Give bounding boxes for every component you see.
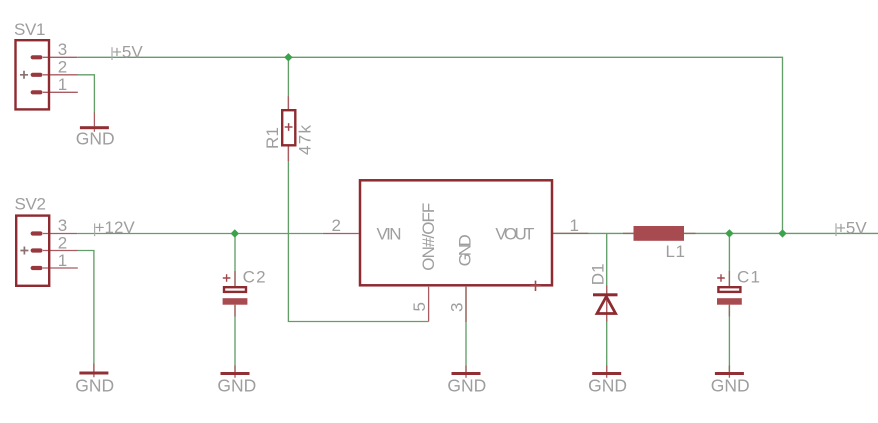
svg-text:SV1: SV1 xyxy=(14,20,46,39)
svg-text:3: 3 xyxy=(58,216,67,235)
svg-text:GND: GND xyxy=(711,376,750,396)
svg-text:GND: GND xyxy=(588,376,627,396)
svg-text:GND: GND xyxy=(217,376,256,396)
svg-text:1: 1 xyxy=(58,75,67,94)
svg-text:GND: GND xyxy=(75,376,114,396)
svg-text:3: 3 xyxy=(448,303,467,312)
svg-text:+12V: +12V xyxy=(95,218,136,237)
svg-text:GND: GND xyxy=(456,234,475,266)
svg-text:SV2: SV2 xyxy=(15,195,47,214)
svg-text:2: 2 xyxy=(58,234,67,253)
svg-text:C2: C2 xyxy=(243,268,266,287)
svg-text:1: 1 xyxy=(570,216,579,235)
svg-text:GND: GND xyxy=(76,129,115,149)
svg-text:1: 1 xyxy=(58,251,67,270)
svg-text:L1: L1 xyxy=(666,242,686,261)
svg-text:+5V: +5V xyxy=(112,43,143,62)
svg-text:47k: 47k xyxy=(296,125,315,156)
svg-text:C1: C1 xyxy=(737,268,760,287)
svg-text:GND: GND xyxy=(447,376,486,396)
svg-text:+5V: +5V xyxy=(836,219,867,238)
svg-text:5: 5 xyxy=(410,302,429,311)
svg-text:3: 3 xyxy=(58,40,67,59)
svg-text:R1: R1 xyxy=(263,127,282,149)
svg-text:VIN: VIN xyxy=(377,225,402,244)
svg-text:2: 2 xyxy=(58,58,67,77)
svg-text:D1: D1 xyxy=(588,263,607,285)
svg-text:ON#/OFF: ON#/OFF xyxy=(419,203,438,271)
svg-text:VOUT: VOUT xyxy=(495,225,534,244)
svg-text:2: 2 xyxy=(332,216,341,235)
